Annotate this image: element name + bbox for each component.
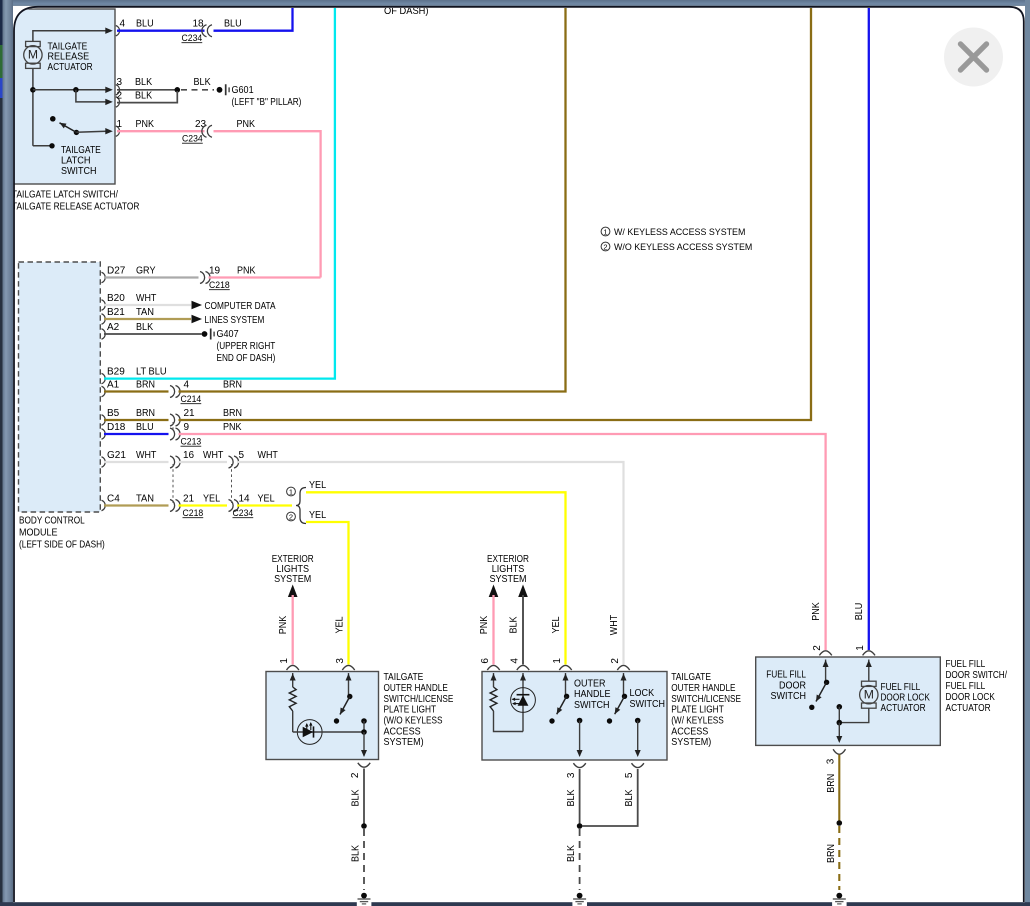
backdrop left strip bbox=[0, 0, 13, 906]
wire YEL C218 to C234 bbox=[179, 504, 228, 506]
junction stub box3 bbox=[837, 704, 843, 710]
wire BLK dashed segment bbox=[579, 829, 581, 890]
resistor R2 bbox=[490, 687, 497, 711]
svg-text:G21: G21 bbox=[107, 450, 126, 461]
svg-text:ACTUATOR: ACTUATOR bbox=[48, 62, 93, 73]
BCM pin B5 bbox=[102, 415, 106, 425]
svg-text:RELEASE: RELEASE bbox=[48, 52, 90, 63]
pin 4 entry arrow bbox=[522, 673, 524, 732]
svg-text:A1: A1 bbox=[107, 379, 120, 390]
wire BLK solid segment bbox=[579, 769, 581, 826]
wire BLU pin 4 to C234 bbox=[117, 30, 205, 32]
connector shell box3 bottom bbox=[833, 749, 845, 754]
BCM pin B20 bbox=[102, 300, 106, 310]
ground bbox=[361, 893, 367, 899]
svg-text:BLK: BLK bbox=[135, 77, 152, 88]
switch S4 lock switch bbox=[622, 694, 627, 699]
wire PNK to license plate light pin 1 bbox=[292, 595, 294, 665]
BCM pin B29 bbox=[102, 373, 106, 383]
svg-text:M: M bbox=[864, 688, 874, 702]
wire PNK C213 to fuel fill door switch bbox=[179, 434, 826, 650]
svg-text:PNK: PNK bbox=[136, 119, 155, 130]
svg-text:5: 5 bbox=[624, 772, 635, 778]
svg-text:HANDLE: HANDLE bbox=[574, 689, 611, 700]
wire junction to pin 3 bbox=[33, 89, 106, 91]
junction node box3 bbox=[837, 720, 843, 726]
svg-text:FUEL FILL: FUEL FILL bbox=[881, 682, 921, 693]
ground bbox=[836, 893, 842, 899]
connector link C218 bbox=[172, 464, 174, 504]
junction stub bbox=[361, 718, 367, 724]
svg-text:19: 19 bbox=[209, 265, 221, 276]
wire to latch switch contact bbox=[33, 145, 51, 147]
wire WHT B20 to computer data lines bbox=[104, 304, 191, 306]
svg-text:BRN: BRN bbox=[136, 408, 155, 419]
wire WHT G21 to C218 bbox=[104, 461, 169, 463]
svg-text:2: 2 bbox=[610, 658, 621, 664]
svg-text:OUTER: OUTER bbox=[574, 678, 606, 689]
svg-text:OUTER HANDLE: OUTER HANDLE bbox=[671, 683, 736, 694]
svg-text:21: 21 bbox=[183, 493, 195, 504]
svg-text:W/ KEYLESS ACCESS SYSTEM: W/ KEYLESS ACCESS SYSTEM bbox=[614, 227, 745, 238]
junction node mid bbox=[73, 87, 79, 93]
svg-text:PLATE LIGHT: PLATE LIGHT bbox=[671, 705, 724, 716]
arrow to exterior lights PNK bbox=[489, 585, 499, 598]
BCM pin B21 bbox=[102, 314, 106, 324]
svg-text:G407: G407 bbox=[217, 329, 239, 340]
svg-text:SWITCH: SWITCH bbox=[630, 699, 666, 710]
svg-text:PNK: PNK bbox=[811, 602, 822, 621]
svg-text:LATCH: LATCH bbox=[61, 155, 91, 166]
LED license plate light bbox=[297, 720, 322, 745]
svg-text:B5: B5 bbox=[107, 408, 120, 419]
svg-text:SYSTEM: SYSTEM bbox=[489, 574, 526, 585]
svg-text:PNK: PNK bbox=[479, 615, 490, 634]
svg-text:YEL: YEL bbox=[309, 480, 326, 491]
svg-text:(UPPER RIGHT: (UPPER RIGHT bbox=[217, 341, 276, 352]
svg-text:COMPUTER DATA: COMPUTER DATA bbox=[205, 301, 276, 312]
tailgate latch switch S1 bbox=[49, 143, 54, 148]
BCM pin A1 bbox=[102, 386, 106, 396]
svg-text:(LEFT "B" PILLAR): (LEFT "B" PILLAR) bbox=[232, 97, 302, 108]
svg-text:LOCK: LOCK bbox=[630, 688, 655, 699]
bottom bar segments bbox=[0, 902, 357, 906]
svg-text:TAILGATE LATCH SWITCH/: TAILGATE LATCH SWITCH/ bbox=[12, 190, 118, 201]
connector link C234 bbox=[231, 464, 233, 504]
svg-text:3: 3 bbox=[826, 758, 837, 764]
svg-text:BRN: BRN bbox=[136, 379, 155, 390]
component box: body control module (dashed) bbox=[19, 262, 101, 512]
svg-text:SWITCH/LICENSE: SWITCH/LICENSE bbox=[384, 694, 454, 705]
motor M1 tailgate release actuator bbox=[26, 41, 41, 46]
svg-text:TAILGATE: TAILGATE bbox=[61, 145, 101, 156]
svg-text:SYSTEM): SYSTEM) bbox=[384, 737, 424, 748]
junction node at motor leg bbox=[30, 87, 36, 93]
svg-text:YEL: YEL bbox=[203, 493, 220, 504]
svg-text:BRN: BRN bbox=[826, 774, 837, 793]
svg-text:DOOR: DOOR bbox=[779, 680, 806, 691]
backdrop top bar bbox=[0, 0, 1030, 6]
wire resistor leg bbox=[494, 711, 524, 732]
svg-text:WHT: WHT bbox=[136, 450, 156, 461]
junction node bbox=[837, 820, 843, 826]
wire BLU C234 up to top bbox=[214, 7, 293, 31]
connector C218 pin 16 bbox=[170, 456, 175, 468]
connector shells box1 top bbox=[287, 665, 299, 670]
ground G407 (UPPER RIGHT END OF DASH) bbox=[202, 331, 208, 337]
wire PNK C218 to riser bbox=[209, 276, 321, 278]
svg-text:BLK: BLK bbox=[351, 845, 362, 862]
svg-text:ACTUATOR: ACTUATOR bbox=[946, 703, 991, 714]
connector shells box2 top bbox=[487, 665, 499, 670]
wire TAN B21 to computer data lines bbox=[104, 318, 191, 320]
wire BLK A2 to G407 bbox=[104, 333, 202, 335]
connector C234 pin 14 bbox=[229, 500, 234, 512]
pin 1 entry arrow bbox=[292, 673, 294, 687]
BCM pin A2 bbox=[102, 329, 106, 339]
junction node box1 bbox=[361, 729, 367, 735]
wire motor bottom vertical bbox=[32, 69, 34, 146]
svg-text:TAILGATE: TAILGATE bbox=[384, 672, 424, 683]
wire PNK pin 6 bbox=[492, 595, 494, 665]
svg-text:WHT: WHT bbox=[258, 450, 278, 461]
wire motor top to pin 4 bbox=[33, 31, 106, 42]
motor M2 fuel fill door lock actuator bbox=[862, 681, 877, 686]
svg-text:4: 4 bbox=[184, 379, 190, 390]
svg-text:END OF DASH): END OF DASH) bbox=[217, 353, 276, 364]
connector shells box2 bottom bbox=[573, 763, 585, 767]
svg-text:PNK: PNK bbox=[223, 422, 242, 433]
svg-text:DOOR SWITCH/: DOOR SWITCH/ bbox=[946, 670, 1008, 681]
junction node bbox=[577, 823, 583, 829]
BCM pin C4 bbox=[102, 500, 106, 510]
svg-text:5: 5 bbox=[239, 450, 245, 461]
BCM pin D18 bbox=[102, 429, 106, 439]
svg-text:6: 6 bbox=[480, 658, 491, 664]
svg-text:DOOR LOCK: DOOR LOCK bbox=[946, 692, 996, 703]
svg-text:BLK: BLK bbox=[135, 91, 152, 102]
wire WHT C234 to lock switch bbox=[237, 462, 624, 665]
connector C218 pin 19 bbox=[200, 272, 205, 284]
svg-text:ACTUATOR: ACTUATOR bbox=[881, 703, 926, 714]
svg-text:BRN: BRN bbox=[223, 379, 242, 390]
wire junction down to pin 2 bbox=[76, 90, 106, 102]
option brace bbox=[296, 488, 306, 524]
junction node BLK bbox=[175, 87, 181, 93]
svg-text:TAILGATE: TAILGATE bbox=[671, 672, 711, 683]
wire BLK solid segment bbox=[363, 769, 365, 827]
svg-text:M: M bbox=[28, 48, 38, 62]
svg-text:TAN: TAN bbox=[136, 307, 154, 318]
component box: tailgate latch switch / tailgate release actuator bbox=[13, 9, 115, 184]
connector C234 pin 18 bbox=[202, 25, 207, 37]
pin 2 entry arrow bbox=[825, 660, 827, 682]
wire TAN C4 to C218 bbox=[104, 504, 169, 506]
dashed BLK wire to ground G601 bbox=[181, 89, 214, 91]
svg-text:1: 1 bbox=[855, 645, 866, 651]
svg-text:FUEL FILL: FUEL FILL bbox=[946, 681, 986, 692]
switch S5 fuel fill door switch bbox=[824, 680, 829, 685]
BCM pin G21 bbox=[102, 457, 106, 467]
svg-text:SWITCH/LICENSE: SWITCH/LICENSE bbox=[671, 694, 741, 705]
svg-text:SWITCH: SWITCH bbox=[771, 691, 807, 702]
svg-text:YEL: YEL bbox=[309, 510, 326, 521]
svg-text:BLK: BLK bbox=[508, 616, 519, 633]
svg-text:LT BLU: LT BLU bbox=[136, 366, 167, 377]
wire BRN A1 to C214 bbox=[104, 390, 169, 392]
wire YEL branch 2 to license plate light bbox=[306, 522, 349, 665]
BCM pin D27 bbox=[102, 272, 106, 282]
svg-text:2: 2 bbox=[812, 645, 823, 651]
svg-text:PNK: PNK bbox=[278, 615, 289, 634]
svg-text:MODULE: MODULE bbox=[19, 527, 58, 538]
svg-text:9: 9 bbox=[184, 422, 190, 433]
svg-text:OUTER HANDLE: OUTER HANDLE bbox=[384, 683, 449, 694]
component box: fuel fill door switch / fuel fill door lock actuator bbox=[756, 657, 941, 745]
svg-text:YEL: YEL bbox=[551, 616, 562, 633]
wire BLU from top to fuel fill door lock actuator bbox=[868, 7, 870, 650]
svg-text:FUEL FILL: FUEL FILL bbox=[766, 669, 806, 680]
svg-text:PNK: PNK bbox=[237, 119, 256, 130]
connector C213 pin 9 bbox=[170, 428, 175, 440]
svg-text:21: 21 bbox=[184, 408, 196, 419]
left sliver colors bbox=[0, 0, 3, 45]
svg-text:BLK: BLK bbox=[566, 845, 577, 862]
pin 1 entry arrow bbox=[868, 660, 870, 682]
svg-text:BLK: BLK bbox=[194, 77, 211, 88]
option mark 2 bbox=[287, 512, 296, 521]
svg-text:BLU: BLU bbox=[854, 603, 865, 621]
close button bbox=[944, 28, 1003, 87]
wire GRY D27 to C218 bbox=[104, 276, 199, 278]
note 1 W/ KEYLESS ACCESS SYSTEM bbox=[601, 227, 610, 236]
wire resistor to led bbox=[292, 711, 294, 732]
svg-text:WHT: WHT bbox=[136, 293, 156, 304]
connector C234 pin 23 bbox=[202, 125, 207, 137]
svg-text:4: 4 bbox=[509, 658, 520, 664]
svg-text:SWITCH: SWITCH bbox=[61, 166, 97, 177]
resistor R1 bbox=[289, 687, 296, 711]
svg-text:3: 3 bbox=[335, 658, 346, 664]
svg-text:WHT: WHT bbox=[609, 615, 620, 635]
svg-text:2: 2 bbox=[350, 772, 361, 778]
svg-text:A2: A2 bbox=[107, 322, 120, 333]
svg-text:3: 3 bbox=[117, 77, 123, 88]
ground bbox=[577, 893, 583, 899]
svg-text:BLK: BLK bbox=[351, 789, 362, 806]
wire LT BLU B29 up to top bbox=[104, 7, 335, 379]
pin 1 entry arrow bbox=[565, 673, 567, 695]
connector link C213 bbox=[172, 422, 174, 432]
svg-text:YEL: YEL bbox=[258, 493, 275, 504]
component box: tailgate outer handle switch/license plate light (W/ keyless) bbox=[482, 672, 667, 761]
wire BRN C214 up to top bbox=[179, 7, 566, 392]
svg-text:1: 1 bbox=[279, 658, 290, 664]
svg-text:FUEL FILL: FUEL FILL bbox=[946, 659, 986, 670]
svg-text:3: 3 bbox=[566, 772, 577, 778]
svg-text:TAILGATE: TAILGATE bbox=[48, 41, 88, 52]
svg-text:(LEFT SIDE OF DASH): (LEFT SIDE OF DASH) bbox=[19, 539, 105, 550]
connector C214 pin 4 bbox=[170, 386, 175, 398]
svg-text:PLATE LIGHT: PLATE LIGHT bbox=[384, 705, 437, 716]
arrow to exterior lights BLK bbox=[518, 585, 528, 598]
wire BLU D18 to C213 bbox=[104, 433, 169, 435]
wire PNK C234 down to BCM D27 row bbox=[214, 131, 321, 277]
LED license plate light 2 bbox=[511, 688, 536, 713]
svg-text:PNK: PNK bbox=[237, 265, 256, 276]
junction pin5 column bbox=[635, 718, 641, 724]
wire BLK pin5 to junction bbox=[582, 769, 638, 826]
svg-text:D27: D27 bbox=[107, 265, 126, 276]
svg-text:BLK: BLK bbox=[136, 322, 153, 333]
switch S3 outer handle bbox=[564, 694, 569, 699]
pin 2 entry arrow bbox=[623, 673, 625, 695]
wire switch to pin 1 bbox=[76, 131, 106, 132]
svg-text:(W/ KEYLESS: (W/ KEYLESS bbox=[671, 716, 724, 727]
wire BRN solid segment bbox=[838, 755, 840, 824]
pin arcs on tailgate box bbox=[116, 26, 120, 36]
wire down to pin 3 bbox=[838, 723, 840, 742]
svg-text:1: 1 bbox=[289, 488, 293, 497]
svg-text:1: 1 bbox=[117, 119, 123, 130]
arrow to exterior lights left bbox=[288, 585, 298, 598]
svg-text:TAILGATE RELEASE ACTUATOR: TAILGATE RELEASE ACTUATOR bbox=[12, 201, 139, 212]
svg-text:LINES SYSTEM: LINES SYSTEM bbox=[205, 315, 265, 326]
wire WHT to C234 bbox=[179, 461, 228, 463]
svg-text:ACCESS: ACCESS bbox=[671, 726, 708, 737]
svg-text:TAN: TAN bbox=[136, 493, 154, 504]
svg-text:DOOR LOCK: DOOR LOCK bbox=[881, 693, 931, 704]
wire down to pin 2 bbox=[363, 732, 365, 756]
switch S2 tailgate outer handle bbox=[347, 694, 352, 699]
svg-text:BLK: BLK bbox=[566, 789, 577, 806]
svg-text:D18: D18 bbox=[107, 422, 126, 433]
wire BLK pin 4 bbox=[522, 595, 524, 665]
backdrop right strip bbox=[1025, 0, 1030, 906]
junction pin3 column bbox=[577, 718, 583, 724]
wire BLK dashed segment bbox=[363, 829, 365, 890]
option mark 1 bbox=[287, 487, 296, 496]
svg-text:BLU: BLU bbox=[136, 422, 154, 433]
svg-text:G601: G601 bbox=[232, 85, 254, 96]
wire YEL branch 1 to outer handle switch bbox=[306, 492, 566, 664]
svg-text:BODY CONTROL: BODY CONTROL bbox=[19, 515, 85, 526]
svg-text:(W/O KEYLESS: (W/O KEYLESS bbox=[384, 716, 443, 727]
svg-text:23: 23 bbox=[195, 119, 207, 130]
junction node bbox=[361, 823, 367, 829]
connector shell box1 bottom bbox=[358, 763, 370, 767]
connector shells box3 top bbox=[819, 651, 831, 656]
svg-text:B21: B21 bbox=[107, 307, 125, 318]
svg-text:SWITCH: SWITCH bbox=[574, 700, 610, 711]
svg-text:16: 16 bbox=[183, 450, 195, 461]
wire BRN B5 to C213 bbox=[104, 419, 169, 421]
svg-text:BRN: BRN bbox=[223, 408, 242, 419]
svg-text:2: 2 bbox=[117, 91, 123, 102]
note 2 W/O KEYLESS ACCESS SYSTEM bbox=[601, 242, 610, 251]
connector C213 pin 21 bbox=[170, 414, 175, 426]
svg-text:SYSTEM: SYSTEM bbox=[274, 574, 311, 585]
svg-text:YEL: YEL bbox=[334, 616, 345, 633]
svg-text:BRN: BRN bbox=[826, 844, 837, 863]
svg-text:SYSTEM): SYSTEM) bbox=[671, 737, 711, 748]
wire BRN C213 up to top bbox=[179, 7, 812, 420]
pin 3 entry arrow bbox=[348, 673, 350, 695]
wire BRN dashed segment bbox=[838, 826, 840, 890]
svg-text:2: 2 bbox=[603, 243, 607, 252]
pin 6 entry arrow bbox=[493, 673, 495, 687]
svg-text:1: 1 bbox=[552, 658, 563, 664]
svg-text:C4: C4 bbox=[107, 493, 120, 504]
svg-text:14: 14 bbox=[239, 493, 251, 504]
connector C234 pin 5 bbox=[229, 456, 234, 468]
svg-text:1: 1 bbox=[603, 228, 607, 237]
svg-text:4: 4 bbox=[120, 18, 126, 29]
connector C218 pin 21 bbox=[170, 500, 175, 512]
component box: tailgate outer handle switch/license plate light (W/O keyless) bbox=[266, 672, 379, 760]
wire motor to junction bbox=[839, 708, 869, 723]
svg-text:BLU: BLU bbox=[224, 18, 242, 29]
svg-text:B20: B20 bbox=[107, 293, 125, 304]
svg-text:B29: B29 bbox=[107, 366, 125, 377]
svg-text:BLK: BLK bbox=[624, 789, 635, 806]
svg-text:WHT: WHT bbox=[203, 450, 223, 461]
svg-text:ACCESS: ACCESS bbox=[384, 726, 421, 737]
svg-text:2: 2 bbox=[289, 513, 293, 522]
svg-text:BLU: BLU bbox=[136, 18, 154, 29]
svg-text:W/O KEYLESS ACCESS SYSTEM: W/O KEYLESS ACCESS SYSTEM bbox=[614, 242, 752, 253]
ground G601 (LEFT B PILLAR) bbox=[217, 87, 223, 93]
wire YEL C234 to brace bbox=[237, 504, 292, 506]
svg-text:GRY: GRY bbox=[136, 265, 156, 276]
